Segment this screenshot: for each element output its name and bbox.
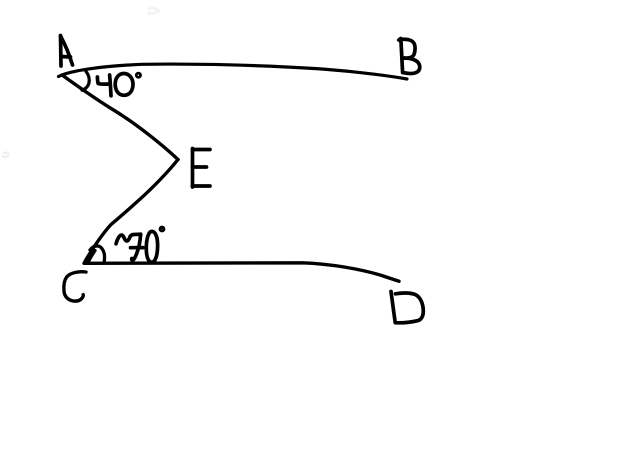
faint smudge top: [148, 8, 159, 13]
point label C: [64, 272, 86, 301]
point label E: [193, 149, 211, 188]
ray AE (line from A down to E): [62, 75, 178, 160]
angle arc at A: [82, 72, 89, 91]
faint smudge left: [3, 153, 8, 157]
point label D: [391, 292, 423, 323]
angle value 70 deg at C: [116, 227, 164, 262]
ray AB (line from A to B): [59, 64, 408, 79]
angle arc at C (inner stroke): [88, 251, 95, 263]
line CD (from C to D): [84, 263, 399, 282]
point label A: [61, 36, 73, 67]
angle arc at C (outer dome): [90, 246, 105, 262]
ray EC (line from E down to C): [85, 160, 178, 262]
angle value 40 deg at A: [97, 73, 140, 96]
point label B: [399, 39, 420, 74]
